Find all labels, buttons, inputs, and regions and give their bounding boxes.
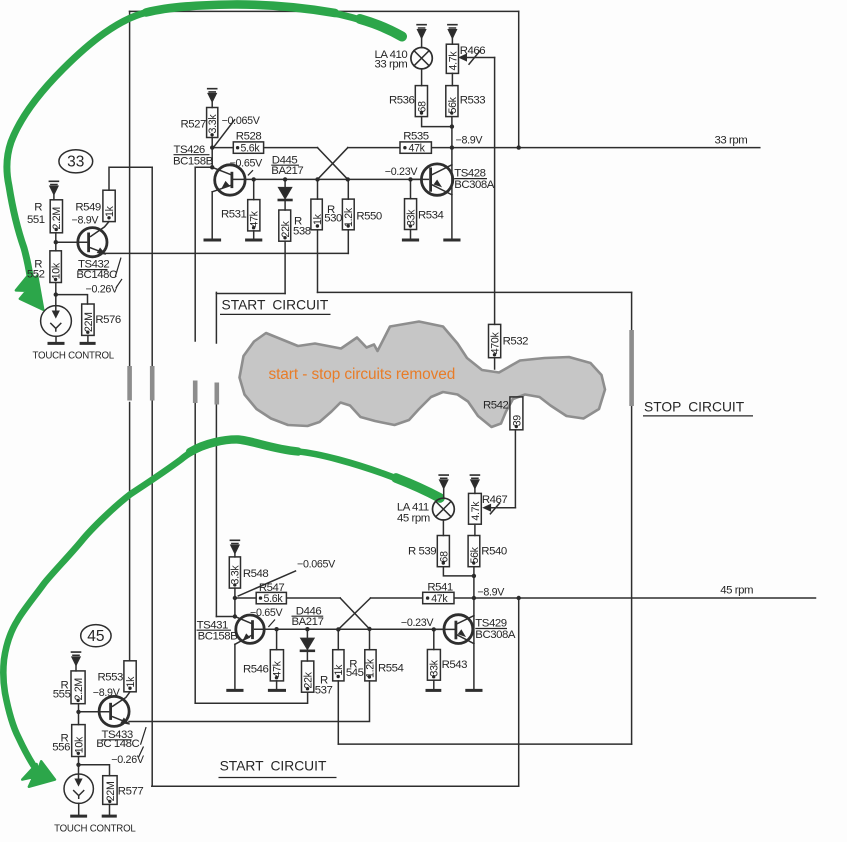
ground R543 [427,689,440,692]
svg-text:−8.9V: −8.9V [456,135,484,147]
resistor R554 [365,650,376,681]
svg-text:33 rpm: 33 rpm [715,134,748,146]
svg-text:555: 555 [53,688,71,700]
resistor R577 [103,776,117,805]
wire bottom box right edge [518,598,520,786]
resistor R537 [302,661,314,692]
node R548/R547 [233,596,237,600]
pot R466 [446,44,458,73]
transistor TS433 [99,696,129,726]
svg-text:STOP CIRCUIT: STOP CIRCUIT [644,400,745,415]
wire cross-coupling line x=195 lower [194,402,196,703]
svg-text:−8.9V: −8.9V [477,587,505,599]
oval 33 [59,150,93,173]
wire R530 bottom to box edge [317,230,319,293]
svg-text:TS428: TS428 [454,168,485,180]
svg-text:−0.065V: −0.065V [222,115,261,127]
svg-text:5.6k: 5.6k [264,593,284,605]
wire R545 drop [337,629,339,649]
wire 45rpm rail mid part [371,597,423,599]
pot arrowhead R466 [459,54,466,61]
svg-text:3.3k: 3.3k [230,565,242,585]
svg-text:10k: 10k [73,736,85,753]
wire branch to R576 [56,295,88,304]
power arrow R466 [448,25,457,28]
svg-text:R467: R467 [482,494,508,506]
node R531 [252,177,256,181]
removed-area blob [240,322,606,428]
pointer -0.065V [214,120,234,147]
svg-text:5.6k: 5.6k [241,142,261,154]
green arrowhead 1 [16,272,44,310]
svg-text:−0.065V: −0.065V [297,559,336,571]
wire R546 bottom [276,681,278,689]
svg-text:1k: 1k [125,676,137,688]
wire R466-R533 [451,73,453,85]
ground touch 2 [72,815,86,818]
svg-text:TOUCH CONTROL: TOUCH CONTROL [54,824,136,835]
wire R531 drop [253,179,255,199]
wire R556 bottom [78,757,80,765]
node D445 [283,177,287,181]
svg-text:68: 68 [438,551,450,563]
node R555/R556 [76,710,80,714]
node rail/box edge bottom [517,596,521,600]
wire TS426 emitter to ground [211,192,213,239]
transistor TS428 [421,164,452,195]
svg-text:−0.23V: −0.23V [385,166,419,178]
wire R550 drop [347,179,349,199]
svg-text:R533: R533 [460,95,486,107]
svg-text:1k: 1k [312,213,324,225]
wire TS431 link to box edge [216,616,235,618]
svg-text:45: 45 [87,628,104,645]
resistor R576 [82,304,94,335]
svg-text:R528: R528 [236,131,262,143]
wire cross-coupling line x=195 upper [194,167,196,341]
svg-text:552: 552 [27,269,45,281]
resistor R538 [279,210,291,241]
svg-text:56k: 56k [447,96,459,113]
ground touch 1 [49,342,63,345]
wire cross diagonal a [318,148,348,180]
wire TS431 emitter to ground [234,644,236,689]
svg-text:R548: R548 [243,568,269,580]
resistor R528 [233,142,263,153]
node rail/box edge top [517,145,521,149]
resistor R539 [437,536,449,567]
wire R532 into blob [494,358,496,369]
resistor R547 [256,592,286,603]
green arrowhead 2 [22,761,55,787]
resistor R540 [468,536,480,567]
node R550 [346,177,350,181]
ground R546 [269,689,284,692]
node touch1 [54,292,58,296]
pointer -0.065V bottom [238,571,295,596]
transistor TS431 [236,615,264,643]
ground TS426 [205,239,220,242]
svg-text:2.2M: 2.2M [73,678,85,700]
node R545 [336,627,340,631]
ground R577 [103,815,115,818]
power arrow R551 [49,181,58,184]
oval 45 [81,625,111,647]
wire TS426 base drop [211,148,213,168]
wire TS426 collector rail [233,178,422,180]
wire R555 bottom [78,704,80,725]
pot R467 [469,493,482,524]
svg-text:R466: R466 [460,45,486,57]
resistor R541 [423,592,454,603]
svg-text:−8.9V: −8.9V [72,215,100,227]
svg-text:538: 538 [293,226,311,238]
resistor R549 [103,190,115,221]
svg-text:R550: R550 [356,211,382,223]
wire bottom box bottom edge [152,785,519,787]
wire R466 tap down to R532 [494,58,496,325]
wire middle box right edge upper [631,292,633,330]
svg-text:45 rpm: 45 rpm [720,584,753,596]
svg-text:33: 33 [67,154,84,171]
diode D446 [306,629,308,638]
wire R553 feed (lower part of left line) [129,403,131,661]
svg-text:39: 39 [511,415,523,427]
resistor R536 [415,86,427,117]
svg-text:470k: 470k [489,332,501,355]
resistor R553 [124,661,136,692]
cut stub left outer [127,366,132,401]
svg-text:45 rpm: 45 rpm [397,513,430,525]
wire R552 bottom [55,283,57,295]
power arrow LA410 [417,25,426,28]
wire 45rpm rail left part [235,597,340,599]
resistor R533 [446,86,458,117]
wire R548 bottom [234,588,236,598]
wire R543 drop [433,629,435,649]
cut stub x=195 [193,381,198,404]
GREEN ARROW 1 (top) [7,4,402,279]
power arrow R548 [230,540,239,543]
svg-text:68: 68 [416,101,428,113]
wire R467-R540 [474,524,476,535]
svg-text:R532: R532 [503,336,529,348]
svg-text:47k: 47k [409,142,426,154]
svg-text:R549: R549 [75,202,101,214]
wire R543 bottom [433,680,435,689]
wire middle box top edge right part [318,291,632,293]
wire R551 bottom [55,233,57,251]
node R539/R540 [472,574,476,578]
wire R537 bottom to x=195 [195,692,307,703]
wire TS428 emitter/collector column [451,148,453,239]
wire R536 bottom to junction [422,117,452,127]
node touch2 [76,763,80,767]
resistor R555 [71,671,85,704]
resistor R531 [248,200,260,231]
cut stub right box edge [629,330,634,406]
wire branch to R577 [79,765,110,776]
svg-text:R543: R543 [442,659,468,671]
ground R534 [403,239,417,242]
wire start box left edge lower to TS431 [215,405,217,617]
value R528 5.6k [236,146,239,149]
resistor R556 [72,725,85,757]
resistor R546 [270,650,283,681]
svg-text:BC158B: BC158B [173,155,213,167]
wire 33rpm rail right part [431,147,759,149]
svg-text:R553: R553 [97,672,123,684]
wire R467 tap up to R542 [514,430,516,508]
diode D445 [284,179,286,187]
wire outer top box left edge (cut) [129,11,131,366]
svg-text:START CIRCUIT: START CIRCUIT [220,758,327,773]
ground TS429 [467,689,481,692]
resistor R543 [427,650,440,681]
pot arrowhead R467 [483,504,490,511]
svg-text:R540: R540 [481,546,507,558]
svg-text:R 539: R 539 [408,545,436,557]
transistor TS426 [215,165,245,195]
svg-text:3.3k: 3.3k [207,114,219,134]
wire R546 drop [276,629,278,650]
wire R533 junction drop [451,127,453,148]
wire R539 bottom to junction [443,567,474,576]
svg-text:545: 545 [346,667,364,679]
wire middle box right edge lower [631,406,633,744]
wire R549 top bracket [109,167,152,190]
node R536/R533 [450,124,454,128]
svg-text:556: 556 [52,742,70,754]
wire middle box top edge left part [216,293,285,295]
power arrow R467 [470,475,479,478]
svg-text:R542: R542 [483,400,509,412]
power arrow R555 [72,652,81,655]
svg-text:R547: R547 [259,582,285,594]
ground R531 [247,239,261,242]
lamp LA411 [433,498,455,520]
node R534/TS428 base [408,177,412,181]
node R530 [315,177,319,181]
svg-text:R576: R576 [95,314,121,326]
wire branch to x=195 [195,166,212,168]
resistor R535 [400,142,431,153]
resistor R530 [311,199,322,230]
svg-text:22k: 22k [280,220,292,237]
svg-text:1.2k: 1.2k [364,658,376,678]
value R541 47k [426,596,429,599]
wire R534 drop [410,179,412,198]
svg-text:47k: 47k [248,210,260,227]
svg-text:R541: R541 [427,582,453,594]
resistor R542 [510,397,523,430]
svg-text:R531: R531 [221,209,247,221]
wire 45rpm rail right part [454,597,816,599]
wire R554 drop [369,629,371,650]
svg-text:R554: R554 [378,662,404,674]
svg-text:−0.23V: −0.23V [401,617,435,629]
node R546 [274,627,278,631]
wire 33rpm rail left part [212,147,317,149]
wire outer top box right edge [518,11,520,147]
svg-text:4.7k: 4.7k [447,51,459,71]
wire R538 bottom to box edge [284,241,286,293]
svg-text:551: 551 [27,214,45,226]
wire lamp to R536 [421,69,423,86]
node R543/TS429 base [432,627,436,631]
wire R530 drop [317,179,319,199]
svg-text:−0.65V: −0.65V [230,157,264,169]
wire 33rpm rail mid part [348,147,400,149]
wire TS429 column [473,598,475,689]
svg-text:TS429: TS429 [475,618,506,630]
wire cross diagonal b [318,148,348,180]
node R551/R552 [54,240,58,244]
svg-text:TOUCH CONTROL: TOUCH CONTROL [33,351,115,362]
wire bottom box left edge [151,401,153,786]
svg-text:R536: R536 [389,95,415,107]
svg-text:R527: R527 [181,118,207,130]
svg-text:LA 411: LA 411 [397,501,429,513]
wire TS431 collector rail [255,628,445,630]
node R527/R528 [210,145,214,149]
ground R576 [81,342,94,345]
svg-text:2.2M: 2.2M [51,207,63,229]
svg-text:R577: R577 [118,785,144,797]
value R535 47k [403,146,406,149]
svg-text:R: R [34,201,42,213]
svg-text:1k: 1k [104,205,116,217]
svg-text:530: 530 [324,213,342,225]
svg-text:47k: 47k [431,593,448,605]
svg-text:33k: 33k [405,209,417,226]
svg-text:BC 148C: BC 148C [96,738,139,750]
svg-text:537: 537 [315,684,333,696]
wire R545 bottom to box [337,681,339,744]
power arrow R527 [208,89,217,92]
svg-text:TS426: TS426 [174,144,205,156]
ground TS431 [228,689,242,692]
node TS426 collector branch [210,165,214,169]
wire cross diagonal d [338,598,370,629]
svg-text:−0.26V: −0.26V [86,284,120,296]
svg-text:R535: R535 [403,131,429,143]
wire R540 junction drop [473,567,475,598]
touch control 1 [41,306,72,337]
wire R554 bottom to TS433 line [129,681,370,722]
wire R527 top [211,101,213,108]
wire R549-to-stop line upper [151,167,153,366]
svg-text:BC308A: BC308A [454,179,495,191]
resistor R532 [489,324,501,357]
svg-text:START CIRCUIT: START CIRCUIT [222,298,329,313]
svg-text:BA217: BA217 [271,165,303,177]
node rail -8.9V bottom [472,596,476,600]
svg-text:33k: 33k [429,659,441,676]
svg-text:TS431: TS431 [197,619,228,631]
transistor TS432 [78,228,107,257]
svg-text:R546: R546 [243,663,269,675]
svg-text:BC308A: BC308A [475,629,516,641]
svg-text:−8.9V: −8.9V [93,687,121,699]
wire R550 bottom [347,230,349,254]
resistor R534 [405,199,417,230]
wire R531 bottom [253,231,255,239]
svg-text:BC148C: BC148C [76,269,117,281]
resistor R548 [229,557,240,588]
wire R527 bottom [211,138,213,148]
svg-text:22M: 22M [83,312,95,332]
transistor TS429 [444,615,473,644]
wire R533 bottom [451,117,453,127]
wire TS432 emitter line [105,252,348,254]
node TS431 collector [233,614,237,618]
wire lamp to R539 [442,520,444,536]
svg-text:−0.26V: −0.26V [111,754,145,766]
svg-text:10k: 10k [51,262,63,279]
svg-text:R534: R534 [418,209,444,221]
node rail -8.9V top [450,145,454,149]
touch control 2 [64,774,93,803]
ground TS428 [445,239,459,242]
svg-text:−0.65V: −0.65V [250,607,284,619]
svg-text:4.7k: 4.7k [470,501,482,521]
svg-text:start - stop circuits removed: start - stop circuits removed [269,366,456,383]
svg-text:33 rpm: 33 rpm [375,58,408,70]
cut stub x=152 [150,366,155,401]
cut stub x=216 [215,383,220,405]
power arrow LA411 [439,475,448,478]
node D446 [305,627,309,631]
resistor R545 [333,650,344,681]
svg-text:BA217: BA217 [292,616,324,628]
svg-text:22M: 22M [105,781,117,801]
wire TS431 collector drop [234,598,236,617]
resistor R550 [342,199,354,230]
wire outer top box top edge [130,10,519,12]
wire R534 bottom [410,230,412,239]
resistor R552 [50,251,62,283]
GREEN ARROW 2 (bottom) [3,439,440,765]
node R554 [367,627,371,631]
wire start box left edge upper [215,292,217,343]
resistor R527 [207,108,218,138]
svg-text:56k: 56k [469,546,481,563]
wire middle box bottom edge from R545 [338,743,631,745]
wire cross diagonal c [340,598,369,629]
svg-text:BC158B: BC158B [198,631,238,643]
lamp LA410 [411,48,432,69]
svg-text:1k: 1k [333,664,345,676]
svg-text:22k: 22k [303,671,315,688]
value R547 5.6k [259,596,262,599]
svg-text:47k: 47k [272,660,284,677]
svg-text:1.2k: 1.2k [343,207,355,227]
resistor R551 [50,200,62,233]
